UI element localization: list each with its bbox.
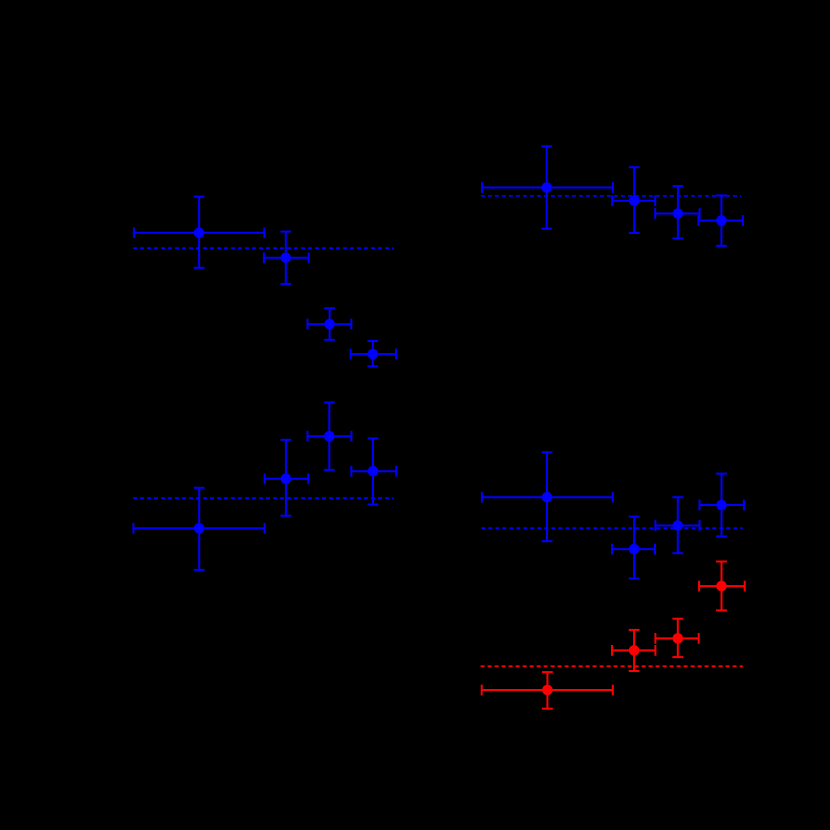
blue point 4 panel 4 <box>700 474 744 537</box>
red point 4 panel 4 <box>699 562 745 611</box>
dashed reference line panel 3 <box>133 497 394 499</box>
dashed red reference line panel 4 <box>481 665 743 667</box>
point 3 panel 2 <box>655 186 699 238</box>
point 1 panel 1 <box>134 197 264 268</box>
blue point 1 panel 4 <box>482 452 613 541</box>
panel 2 (top-right) <box>481 146 743 246</box>
red point 1 panel 4 <box>482 672 613 709</box>
point 4 panel 3 <box>351 438 396 504</box>
red point 2 panel 4 <box>612 630 655 671</box>
point 2 panel 2 <box>612 167 655 233</box>
point 1 panel 3 <box>133 488 264 570</box>
dashed blue reference line panel 4 <box>481 527 743 529</box>
dashed reference line panel 1 <box>133 247 394 249</box>
red point 3 panel 4 <box>655 619 698 657</box>
blue point 2 panel 4 <box>612 517 655 579</box>
point 3 panel 3 <box>308 403 352 470</box>
panel 3 (bottom-left) <box>133 403 396 570</box>
point 4 panel 2 <box>699 195 743 245</box>
point 2 panel 3 <box>265 440 309 516</box>
point 4 panel 1 <box>351 341 397 366</box>
point 1 panel 2 <box>482 146 613 228</box>
panel 4 (bottom-right) blue series <box>481 452 744 578</box>
dashed reference line panel 2 <box>481 195 741 197</box>
point 2 panel 1 <box>264 232 309 284</box>
panel 1 (top-left) <box>133 197 396 367</box>
blue point 3 panel 4 <box>655 497 699 553</box>
panel 4 (bottom-right) red series <box>481 562 745 709</box>
point 3 panel 1 <box>308 308 352 340</box>
